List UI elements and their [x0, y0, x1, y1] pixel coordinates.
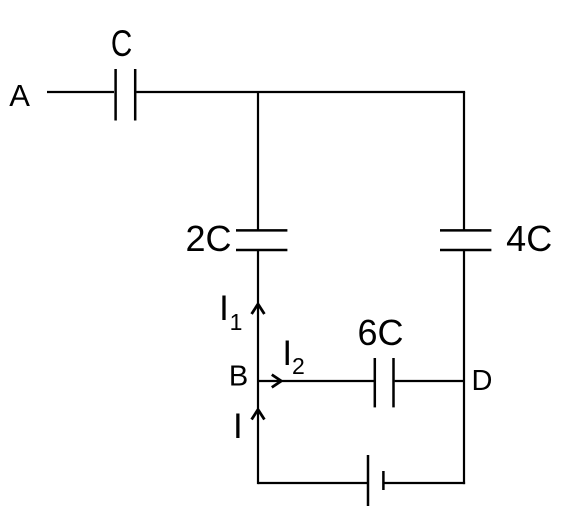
- capacitor 6C: [375, 358, 394, 407]
- svg-text:I: I: [282, 334, 292, 373]
- capacitor 2C: [236, 230, 287, 250]
- battery V1 short plate: [382, 471, 385, 490]
- svg-text:D: D: [472, 365, 493, 397]
- label I1: [219, 289, 242, 335]
- svg-text:1: 1: [230, 309, 243, 335]
- wire capacitor 2C to node B: [257, 250, 259, 381]
- svg-text:A: A: [9, 78, 30, 113]
- wire A to capacitor C: [47, 91, 114, 93]
- current arrow I1: [252, 304, 265, 314]
- current arrow I: [252, 410, 265, 420]
- wire top-right corner to capacitor 4C: [463, 92, 465, 230]
- svg-text:C: C: [111, 24, 132, 65]
- wire battery to bottom-right corner: [385, 482, 466, 484]
- svg-text:2: 2: [292, 353, 305, 379]
- svg-text:4C: 4C: [506, 218, 552, 259]
- wire capacitor C to top-right corner: [136, 91, 465, 93]
- capacitor 4C: [440, 230, 491, 250]
- svg-text:B: B: [229, 361, 248, 393]
- svg-text:I: I: [219, 289, 229, 328]
- wire capacitor 6C to node D: [395, 380, 464, 382]
- svg-text:I: I: [233, 407, 243, 446]
- wire capacitor 4C to node D: [463, 250, 465, 381]
- label I2: [282, 334, 304, 379]
- wire node B to bottom-left corner: [257, 381, 259, 484]
- wire top junction to capacitor 2C: [257, 92, 259, 230]
- current arrow I2: [272, 375, 282, 388]
- wire node D to bottom-right corner: [463, 381, 465, 484]
- capacitor C: [116, 69, 136, 121]
- wire bottom-left corner to battery: [258, 482, 367, 484]
- wire node B to capacitor 6C: [258, 380, 374, 382]
- battery V1 long plate: [367, 455, 370, 506]
- svg-text:2C: 2C: [185, 218, 231, 259]
- svg-text:6C: 6C: [357, 312, 403, 353]
